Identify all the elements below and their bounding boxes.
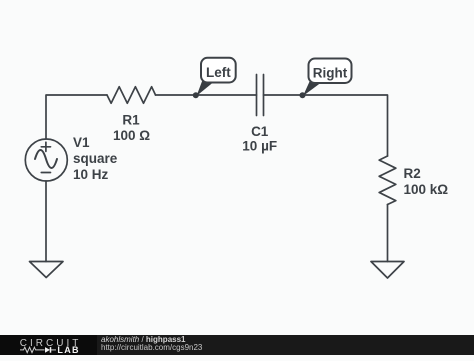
svg-text:10 Hz: 10 Hz: [73, 167, 109, 182]
svg-text:R1: R1: [122, 113, 140, 128]
V1 value labels: [73, 135, 118, 182]
credit line 1: [101, 335, 186, 344]
ground (right): [371, 262, 404, 279]
svg-text:Right: Right: [313, 66, 348, 81]
CircuitLab logo block: [0, 335, 97, 356]
node Left (junction dot): [193, 92, 199, 98]
Left callout box: [201, 58, 236, 83]
ground (left): [30, 262, 64, 278]
wire node Left to C1: [196, 94, 257, 96]
wire C1 to node Right: [264, 94, 303, 96]
credit line 2: [101, 343, 202, 352]
svg-text:C1: C1: [251, 124, 269, 139]
wire from V1 top to R1: [46, 95, 107, 139]
resistor R1: [107, 87, 156, 104]
wire from V1 bottom to left ground: [45, 181, 47, 262]
logo diode glyph: [45, 347, 56, 353]
wire R1 to node Left: [156, 94, 197, 96]
Right callout box: [309, 59, 352, 84]
C1 value labels: [242, 124, 277, 154]
wire node Right to top-right corner and down to R2: [303, 95, 388, 156]
node Right (junction dot): [300, 92, 306, 98]
wire R2 to right ground: [387, 205, 389, 262]
logo resistor glyph: [20, 347, 45, 352]
svg-text:LAB: LAB: [57, 345, 79, 355]
R2 value labels: [404, 166, 449, 197]
svg-text:Left: Left: [206, 65, 231, 80]
resistor R2: [379, 156, 396, 205]
Left callout pointer: [197, 80, 214, 96]
footer bar: [0, 335, 474, 356]
svg-text:R2: R2: [404, 166, 421, 181]
capacitor C1: [257, 75, 264, 116]
svg-text:V1: V1: [73, 135, 90, 150]
voltage source V1: [25, 139, 67, 181]
svg-text:square: square: [73, 151, 118, 166]
svg-text:10 µF: 10 µF: [242, 139, 277, 154]
R1 value labels: [113, 113, 150, 143]
Right callout pointer: [303, 81, 321, 97]
svg-text:100 kΩ: 100 kΩ: [404, 182, 449, 197]
svg-text:100 Ω: 100 Ω: [113, 128, 150, 143]
